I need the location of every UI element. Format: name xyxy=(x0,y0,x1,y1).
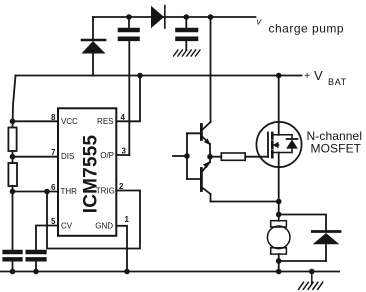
wire O/P stub to bases xyxy=(173,155,187,157)
label +VBAT xyxy=(304,68,347,87)
svg-text:RES: RES xyxy=(97,117,113,126)
transistor Q3 N-channel MOSFET xyxy=(256,122,301,167)
label v charge pump xyxy=(257,17,345,36)
resistor R2 xyxy=(8,163,17,186)
node ground symbol tie xyxy=(309,269,315,275)
node freewheel diode top junction xyxy=(276,212,282,218)
wire pin2 TRIG return loop to THR xyxy=(47,191,140,249)
node reservoir-cap top junction xyxy=(184,14,190,20)
wire freewheel diode bottom to motor bottom xyxy=(279,260,326,262)
node motor ground tie xyxy=(276,269,282,275)
svg-text:O/P: O/P xyxy=(100,151,114,160)
IC U1 ICM7555 body xyxy=(58,108,116,236)
node timing cap ground xyxy=(10,269,16,275)
svg-text:THR: THR xyxy=(61,187,78,196)
svg-text:4: 4 xyxy=(121,113,126,122)
node source junction xyxy=(276,199,282,205)
capacitor C1 flying (charge pump) xyxy=(120,17,138,155)
node RES riser on VBAT rail xyxy=(137,73,143,79)
label N-channel MOSFET xyxy=(307,129,363,156)
node VCC tie xyxy=(10,119,16,125)
node collector riser junction xyxy=(208,14,214,20)
diode D1 charge-pump (anode at VBAT, cathode up) xyxy=(82,17,106,76)
wire ground rail bottom xyxy=(0,271,339,273)
svg-text:GND: GND xyxy=(95,222,113,231)
ground (hatched) bottom right xyxy=(299,272,323,290)
svg-text:CV: CV xyxy=(61,221,73,230)
wire gate resistor to MOSFET gate xyxy=(245,156,268,158)
wire emitter node to gate resistor xyxy=(210,156,221,158)
node base input junction xyxy=(184,153,190,159)
wire pin7 DIS xyxy=(13,156,59,158)
node CV cap ground xyxy=(33,269,39,275)
svg-text:8: 8 xyxy=(51,113,56,122)
body diode of MOSFET xyxy=(287,138,298,140)
svg-text:3: 3 xyxy=(122,147,127,156)
wire MOSFET source down xyxy=(278,153,280,221)
diode D3 freewheel xyxy=(312,232,340,262)
svg-text:ICM7555: ICM7555 xyxy=(81,135,102,214)
wire pin3 O/P riser to flying cap xyxy=(116,154,129,155)
wire R1 to R2 xyxy=(12,151,14,163)
svg-text:v: v xyxy=(257,17,262,27)
diode D2 series charge-pump (pointing right) xyxy=(151,6,165,29)
node MOSFET drain on VBAT rail xyxy=(276,73,282,79)
wire charge-pump riser to driver collector xyxy=(210,17,212,122)
capacitor C3 timing xyxy=(5,252,21,272)
node emitter output junction xyxy=(207,154,213,160)
capacitor C4 control-voltage xyxy=(28,252,45,272)
wire +VBAT rail xyxy=(16,75,302,77)
svg-text:VCC: VCC xyxy=(61,117,78,126)
wire pin8 VCC xyxy=(13,120,59,122)
pin labels inside IC xyxy=(61,117,115,231)
wire PNP collector to source node xyxy=(211,201,279,203)
motor M1 xyxy=(267,221,290,272)
node DIS tie xyxy=(10,154,16,160)
wire R2 down to timing cap xyxy=(12,186,14,250)
svg-text:TRIG: TRIG xyxy=(96,186,115,195)
svg-text:6: 6 xyxy=(51,183,56,192)
transistor Q1 NPN top driver xyxy=(187,122,211,157)
svg-text:5: 5 xyxy=(51,217,56,226)
node THR-TRIG return tie xyxy=(44,189,50,195)
svg-text:V: V xyxy=(314,68,323,83)
svg-text:DIS: DIS xyxy=(61,152,74,161)
node THR tie xyxy=(10,189,16,195)
svg-text:7: 7 xyxy=(51,148,56,157)
wire pin6 THR xyxy=(13,191,59,193)
svg-text:+: + xyxy=(304,71,310,82)
node IC GND tie xyxy=(124,269,130,275)
node motor bottom / diode junction xyxy=(276,258,282,264)
wire base bus vertical xyxy=(186,133,188,179)
ground (hatched) under reservoir cap xyxy=(174,50,201,56)
pin numbers xyxy=(51,113,129,226)
wire pin1 GND drop to ground rail xyxy=(116,226,127,272)
svg-text:1: 1 xyxy=(125,215,130,224)
wire pin5 CV xyxy=(36,226,58,251)
wire charge-pump top rail xyxy=(93,16,256,18)
svg-text:BAT: BAT xyxy=(328,77,347,87)
svg-text:MOSFET: MOSFET xyxy=(311,142,362,156)
wire pin4 RES riser to VBAT xyxy=(116,76,140,122)
svg-text:charge pump: charge pump xyxy=(269,22,345,36)
node flying-cap top junction xyxy=(126,14,132,20)
svg-text:2: 2 xyxy=(119,182,124,191)
resistor R3 gate xyxy=(221,153,245,160)
wire to freewheel diode top xyxy=(279,215,326,232)
resistor R1 xyxy=(8,128,16,152)
wire VBAT left drop to resistor chain xyxy=(13,76,16,128)
wire MOSFET drain to VBAT xyxy=(278,76,280,135)
capacitor C2 reservoir xyxy=(178,17,197,50)
transistor Q2 PNP bottom driver xyxy=(187,157,211,202)
